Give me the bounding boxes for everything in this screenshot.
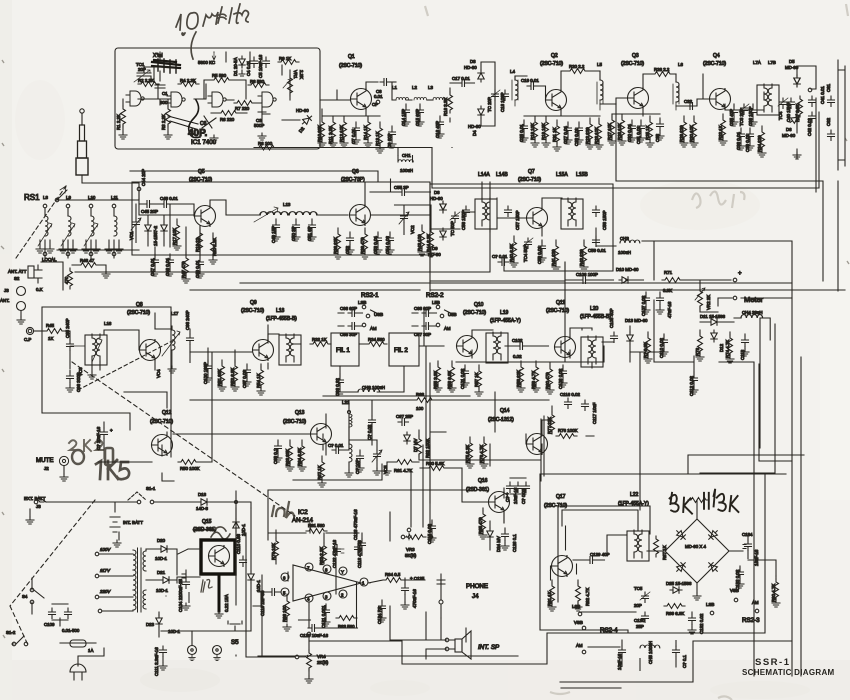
NAND gate 4	[258, 92, 276, 107]
svg-text:5K(B): 5K(B)	[405, 553, 417, 558]
capacitor C110	[65, 608, 72, 619]
capacitor C93b 0.22	[336, 374, 344, 396]
diode D20 10D-1	[158, 546, 170, 552]
svg-text:R10 22K: R10 22K	[317, 125, 322, 142]
svg-text:AM: AM	[752, 600, 759, 605]
svg-text:R80 5.6K: R80 5.6K	[426, 461, 444, 466]
svg-text:25P: 25P	[636, 624, 644, 629]
svg-text:C67 30P: C67 30P	[414, 332, 431, 337]
resistor R38 22K	[334, 228, 342, 259]
AGC bus wires	[456, 346, 664, 362]
filter FIL1	[331, 333, 359, 366]
svg-text:S2: S2	[14, 276, 20, 281]
svg-text:(2SC-710): (2SC-710)	[127, 310, 150, 316]
svg-text:20P: 20P	[138, 67, 146, 72]
svg-text:LSB: LSB	[572, 604, 580, 609]
svg-text:47uF-16: 47uF-16	[667, 301, 672, 318]
handwritten Ile marks	[201, 580, 212, 593]
svg-text:D9: D9	[432, 246, 438, 251]
svg-text:C121 0.001: C121 0.001	[321, 605, 326, 628]
diode D4 HD-60	[478, 106, 484, 118]
resistor R32b 1K	[310, 342, 331, 347]
svg-text:C61: C61	[826, 83, 831, 92]
choke CH1 100uH	[397, 148, 399, 156]
NAND gate 2	[167, 92, 185, 107]
svg-text:Q12: Q12	[162, 410, 172, 416]
resistor R78 100K	[556, 434, 577, 439]
svg-text:15-1587-2: 15-1587-2	[153, 225, 158, 246]
svg-text:R25 1K: R25 1K	[645, 125, 650, 140]
resistor R62b 100K	[417, 436, 422, 457]
svg-text:HD-60: HD-60	[430, 196, 443, 201]
svg-text:R38 22K: R38 22K	[333, 237, 338, 254]
resistor R8 560	[248, 83, 269, 88]
svg-text:C? 10P: C? 10P	[355, 459, 360, 474]
capacitor C106 100P	[579, 277, 590, 284]
svg-text:VC4: VC4	[156, 369, 161, 378]
capacitor C57 150P	[505, 206, 512, 217]
svg-text:S5: S5	[231, 639, 239, 646]
diode D2a 15-1587-2	[145, 222, 151, 234]
bias bus row2	[132, 182, 565, 281]
svg-text:C19 0.01: C19 0.01	[521, 78, 539, 83]
resistor R41 220	[552, 240, 560, 271]
svg-text:C55 3P: C55 3P	[394, 185, 409, 190]
svg-text:R23 10K: R23 10K	[594, 127, 599, 144]
capacitor C15 60P	[416, 104, 424, 126]
svg-text:10D-1: 10D-1	[256, 579, 261, 592]
svg-text:D24 MV: D24 MV	[496, 536, 501, 552]
svg-text:R19 10K: R19 10K	[541, 123, 546, 140]
svg-text:1A: 1A	[88, 648, 93, 653]
resistor R79 10K	[274, 538, 279, 559]
variable cap VC5	[374, 450, 381, 461]
potentiometer VR4 2K(B)	[307, 650, 312, 671]
svg-text:Q6: Q6	[352, 169, 359, 175]
resistor R87	[654, 536, 659, 557]
resistor R7 220	[234, 101, 255, 106]
svg-text:R67 1K: R67 1K	[317, 465, 322, 480]
resistor R19 10K	[542, 116, 550, 147]
capacitor C108b 47uF-16	[656, 292, 664, 314]
oscillator box outline	[115, 48, 320, 149]
svg-text:C93 0.1: C93 0.1	[273, 448, 278, 464]
wire gate3 to gate4	[226, 99, 234, 101]
svg-text:C? 0.02: C? 0.02	[521, 488, 526, 504]
resistor R92 4.7K	[574, 580, 582, 611]
under Q3 cluster: resistor R27 10K	[608, 114, 616, 145]
svg-text:C18 100P: C18 100P	[500, 92, 505, 112]
capacitor C 20uF-16	[101, 428, 108, 439]
svg-text:220V: 220V	[99, 589, 111, 594]
svg-text:SCHEMATIC DIAGRAM: SCHEMATIC DIAGRAM	[742, 668, 835, 677]
capacitor C26 0.01	[575, 122, 583, 144]
svg-text:R34 560: R34 560	[368, 337, 385, 342]
svg-text:C100 100P: C100 100P	[203, 362, 208, 384]
wire mixer box	[430, 184, 613, 271]
svg-text:FIL 1: FIL 1	[336, 347, 350, 354]
dashed linkage diagonal	[72, 362, 295, 516]
capacitor C30 0.04	[628, 120, 636, 142]
svg-text:L1: L1	[392, 85, 397, 90]
svg-text:R7 220: R7 220	[235, 106, 250, 111]
choke CH3 100uH	[596, 228, 616, 246]
svg-text:LSB: LSB	[706, 602, 714, 607]
svg-text:R60 470: R60 470	[545, 372, 550, 389]
capacitor C27 0.04	[564, 122, 572, 144]
svg-text:(1FP-455A-Y): (1FP-455A-Y)	[490, 318, 521, 324]
svg-text:C50 3P: C50 3P	[291, 226, 296, 241]
capacitor C96b 10P	[356, 450, 364, 472]
svg-text:D3: D3	[470, 59, 476, 64]
svg-text:C? 0.02: C? 0.02	[367, 424, 372, 440]
svg-text:C5 10uF-16: C5 10uF-16	[258, 54, 263, 78]
resistor R20 2.2K	[209, 233, 217, 264]
capacitor C31 0.01	[637, 120, 645, 142]
svg-text:C39 0.01: C39 0.01	[745, 134, 750, 152]
svg-text:R79 10K: R79 10K	[271, 543, 276, 560]
svg-text:CH1: CH1	[402, 153, 411, 158]
svg-text:0.02: 0.02	[513, 354, 522, 359]
svg-text:L13: L13	[283, 202, 291, 207]
resistor R73 2.2K	[696, 330, 704, 361]
svg-text:D18: D18	[198, 492, 207, 497]
svg-text:C36 100P: C36 100P	[748, 106, 753, 126]
svg-text:L2: L2	[412, 85, 417, 90]
resistor R91 1K	[548, 580, 556, 611]
svg-text:C111 3.3uF-16: C111 3.3uF-16	[154, 647, 159, 676]
resistor R13 1K	[376, 122, 384, 153]
svg-text:R8 560: R8 560	[250, 79, 265, 84]
wire antenna to C44	[82, 175, 139, 189]
svg-text:R43 100: R43 100	[417, 234, 422, 251]
handwritten 2K2	[69, 440, 105, 451]
svg-text:R22 220: R22 220	[585, 127, 590, 144]
resistor R89 6.8K	[664, 604, 685, 609]
svg-text:C123 470uF-16: C123 470uF-16	[353, 509, 358, 540]
svg-text:C118 47uF-16: C118 47uF-16	[357, 540, 362, 568]
svg-text:L15B: L15B	[576, 172, 588, 178]
capacitor C95 200P	[67, 340, 74, 351]
svg-text:R42 220: R42 220	[579, 249, 584, 266]
svg-text:Q13: Q13	[295, 410, 305, 416]
ground symbols in box	[239, 70, 245, 76]
svg-text:S1-2: S1-2	[6, 630, 16, 635]
svg-text:C109: C109	[44, 622, 55, 627]
svg-text:R2 2.2K: R2 2.2K	[138, 78, 154, 83]
svg-text:TC4: TC4	[778, 111, 783, 120]
wire row2 upper rail	[130, 171, 378, 182]
svg-text:L7B: L7B	[768, 60, 776, 65]
capacitor C115 0.02	[428, 520, 436, 542]
resistor R44 3.3K	[427, 226, 435, 257]
svg-text:R55 3.3K: R55 3.3K	[433, 371, 438, 389]
svg-text:R6 220: R6 220	[220, 117, 235, 122]
capacitor C50 3P	[292, 219, 300, 241]
trimmer TC3 20P	[741, 104, 748, 115]
capacitor C4 0.01	[251, 57, 258, 68]
under Q2 cluster: capacitor C25 0.01	[520, 120, 528, 142]
resistor R83 560	[336, 616, 357, 621]
svg-text:L6: L6	[678, 62, 683, 67]
svg-text:10uF-16: 10uF-16	[617, 653, 622, 670]
capacitor C96 300P	[66, 370, 74, 392]
svg-text:C113: C113	[740, 349, 745, 360]
handwritten 1K5	[96, 460, 129, 479]
capacitor C104 2200uF-25	[183, 578, 190, 589]
capacitor C125 470uF-16	[402, 584, 409, 595]
resistor R3 2.2K	[164, 106, 172, 139]
svg-text:HD-60: HD-60	[464, 65, 477, 70]
svg-text:R11 2.2K: R11 2.2K	[328, 126, 333, 144]
capacitor C116 0.02	[565, 398, 572, 409]
svg-text:R89 6.8K: R89 6.8K	[666, 611, 684, 616]
capacitor C46 0.04	[166, 254, 174, 276]
svg-text:0.22 15A: 0.22 15A	[224, 594, 229, 612]
svg-text:C48 0.01: C48 0.01	[160, 196, 178, 201]
svg-text:ANT. ATT: ANT. ATT	[8, 269, 27, 274]
svg-text:C16 40P: C16 40P	[435, 121, 440, 138]
svg-text:500P: 500P	[254, 123, 264, 128]
svg-text:R20 2.2K: R20 2.2K	[212, 238, 217, 256]
bridge rectifier MD-60 X 4	[665, 519, 729, 583]
wire osc to Q1 base	[320, 90, 350, 100]
svg-text:C126 0.1: C126 0.1	[512, 534, 517, 552]
svg-text:R78 100K: R78 100K	[558, 428, 578, 433]
svg-text:C32: C32	[684, 99, 693, 104]
crystal X'tal (heavy scribble)	[152, 59, 180, 73]
capacitor C8 0.01 at collector	[366, 82, 378, 89]
svg-text:C132 0.02: C132 0.02	[699, 613, 704, 634]
transformer T1	[138, 548, 142, 612]
bus y181	[616, 104, 823, 281]
tap common	[98, 609, 102, 613]
wire battery line	[46, 502, 251, 508]
svg-text:R41 220: R41 220	[551, 249, 556, 266]
capacitor C53 0.04	[374, 232, 382, 254]
capacitor C?? 0.02	[660, 334, 668, 356]
resistor R84 0.5	[383, 578, 404, 583]
dashed linkage line	[78, 341, 172, 390]
resistor R1 2.2K	[119, 106, 127, 139]
capacitor C130 25P	[642, 612, 649, 623]
svg-text:C15 60P: C15 60P	[415, 109, 420, 126]
resistor R30 10K	[690, 116, 698, 147]
thick resistor (marker)	[72, 448, 113, 465]
resistor R63 33K	[286, 440, 294, 471]
wires right edge top	[797, 66, 816, 192]
svg-text:2K(B): 2K(B)	[317, 660, 329, 665]
box around Q17 L22 oscillator	[558, 506, 650, 602]
svg-text:L18: L18	[276, 308, 285, 314]
svg-text:VC2: VC2	[410, 225, 415, 234]
capacitor C134 16uF-16	[745, 540, 752, 551]
capacitor C101 0.02	[461, 365, 469, 387]
svg-text:R40 6.8K: R40 6.8K	[509, 244, 514, 262]
AC plug	[70, 648, 104, 680]
resistor R21 1K	[553, 120, 561, 151]
svg-text:(2SC-73P): (2SC-73P)	[341, 177, 365, 183]
svg-text:LSB: LSB	[358, 300, 366, 305]
svg-text:Q2: Q2	[551, 53, 558, 59]
svg-text:C31 0.01: C31 0.01	[636, 126, 641, 144]
svg-text:D4: D4	[472, 130, 477, 136]
svg-text:C124 R2: C124 R2	[377, 606, 382, 624]
capacitor C94 0.02	[369, 416, 376, 427]
svg-text:C68 60P: C68 60P	[414, 306, 431, 311]
svg-text:R47 470: R47 470	[181, 261, 186, 278]
svg-text:CP: CP	[372, 102, 378, 107]
svg-text:D5: D5	[789, 59, 795, 64]
svg-text:C? 0.1: C? 0.1	[682, 655, 687, 668]
svg-text:(2SC-1312): (2SC-1312)	[488, 417, 514, 423]
svg-text:1K: 1K	[48, 336, 53, 341]
choke CH4 29uH	[741, 315, 763, 318]
svg-text:R51 33K: R51 33K	[217, 369, 222, 386]
svg-text:R77 22K: R77 22K	[547, 417, 552, 434]
svg-text:R84 0.5: R84 0.5	[385, 572, 401, 577]
wire Q5 emitter to cluster	[155, 205, 200, 256]
svg-text:TC 50P: TC 50P	[450, 221, 455, 236]
svg-text:C41 0.01: C41 0.01	[820, 86, 825, 104]
wire gate1 to gate2	[144, 84, 206, 99]
svg-text:10D-1: 10D-1	[156, 588, 169, 593]
wire to Q2 base	[538, 86, 551, 100]
svg-text:VR3: VR3	[406, 547, 415, 552]
svg-text:VR2 2K: VR2 2K	[706, 295, 711, 310]
svg-text:Q7: Q7	[528, 169, 535, 175]
capacitor C100 100P	[204, 360, 212, 382]
diode D9 HD-60	[440, 228, 446, 240]
TC1 trimmer	[137, 67, 172, 82]
svg-text:R54 1K: R54 1K	[256, 373, 261, 388]
svg-text:J2: J2	[44, 466, 49, 471]
trimmer TC5a 50P	[452, 212, 459, 223]
svg-text:(2SC-710): (2SC-710)	[546, 308, 569, 314]
svg-text:C35 40P: C35 40P	[729, 109, 734, 126]
capacitor C98 240P	[187, 334, 194, 345]
svg-text:R34 220: R34 220	[757, 135, 762, 152]
capacitor C2 (feedback scribble)	[168, 100, 200, 138]
diode D25 15-1588	[670, 587, 682, 593]
capacitor C1	[155, 71, 165, 105]
svg-text:Q15: Q15	[202, 519, 212, 525]
svg-text:R92 4.7K: R92 4.7K	[585, 588, 590, 606]
switch arm on bus	[57, 190, 67, 200]
NAND gate 1	[126, 91, 144, 106]
resistor R81 560	[306, 529, 327, 534]
svg-text:L10: L10	[88, 195, 96, 200]
inductor L23	[349, 444, 352, 462]
capacitor C49 15P	[272, 219, 280, 241]
op-amp U IC2	[293, 565, 361, 601]
resistor R90 4.7K	[772, 576, 780, 607]
svg-text:470uF-16: 470uF-16	[412, 589, 417, 608]
svg-text:TC3 20P: TC3 20P	[739, 109, 744, 126]
node CP	[376, 100, 380, 104]
svg-text:D1 20-5A: D1 20-5A	[233, 57, 238, 76]
resistor R58 22K	[517, 361, 525, 392]
capacitor C7 0.01	[352, 122, 360, 144]
main antenna bus	[57, 190, 139, 250]
svg-text:C59 0.01: C59 0.01	[588, 248, 606, 253]
svg-text:16uF-16: 16uF-16	[754, 549, 759, 566]
svg-text:R81 560: R81 560	[308, 523, 325, 528]
svg-text:C25 0.01: C25 0.01	[519, 124, 524, 142]
resistor R6 220	[218, 111, 239, 116]
potentiometer VR2 2K	[698, 288, 703, 309]
heavy emitter lead	[218, 575, 221, 611]
svg-text:L7A: L7A	[753, 60, 761, 65]
bridge diode c	[674, 560, 687, 573]
capacitor C111 3.3uF	[160, 646, 167, 657]
svg-text:C.P: C.P	[24, 337, 31, 342]
ground top right	[793, 152, 801, 159]
resistor R77 22K	[550, 412, 555, 433]
svg-text:R56 6.8K: R56 6.8K	[447, 371, 452, 389]
wire to mixer diodes	[75, 182, 490, 272]
resistor R12 10K	[340, 116, 348, 147]
capacitor C61 0.01	[828, 96, 835, 107]
wire bottom buses	[258, 455, 804, 688]
resistor R51 33K	[218, 360, 226, 391]
svg-text:R5 560: R5 560	[212, 73, 227, 78]
svg-text:R19 22: R19 22	[195, 237, 200, 252]
svg-text:40P.: 40P.	[188, 128, 208, 139]
resistor R34b 560	[366, 342, 387, 347]
resistor R76 4.7K	[480, 437, 488, 468]
capacitor C118 47uF-16	[359, 539, 366, 550]
capacitor C107 0.02	[642, 292, 650, 314]
capacitor C44 20P	[137, 187, 141, 191]
svg-text:0.01-500: 0.01-500	[62, 628, 80, 633]
svg-text:C110 0.02: C110 0.02	[659, 338, 664, 358]
resistor R29 220	[680, 116, 688, 147]
svg-text:R9 1K: R9 1K	[279, 56, 291, 61]
svg-text:R32 1K: R32 1K	[312, 337, 327, 342]
svg-text:0.K: 0.K	[36, 287, 43, 292]
capacitor Cx 0.01	[498, 259, 509, 266]
svg-text:INT. SP: INT. SP	[478, 644, 500, 651]
capacitor C59 0.01	[593, 236, 600, 247]
long bus row3 bottom	[42, 181, 845, 457]
svg-text:HD-60: HD-60	[468, 124, 481, 129]
handwritten 10h	[272, 502, 294, 518]
capacitor C95b 0.01	[332, 447, 343, 454]
bridge diode b	[706, 528, 719, 541]
wire mid verticals	[430, 192, 760, 510]
capacitor C97 25P	[398, 419, 409, 426]
resistor R82 2.2K	[322, 543, 327, 564]
svg-text:R30 10K: R30 10K	[689, 125, 694, 142]
resistor R9 1K	[278, 60, 299, 65]
svg-text:L4: L4	[510, 69, 515, 74]
capacitor C62 0.01	[828, 130, 835, 141]
svg-text:R27 10K: R27 10K	[607, 123, 612, 140]
svg-text:Q1: Q1	[348, 54, 355, 60]
telescopic antenna	[80, 109, 84, 113]
diode D1 20-5A	[239, 56, 245, 68]
resistor R43 100	[418, 225, 426, 256]
svg-text:C62: C62	[826, 117, 831, 126]
svg-text:RS2-1: RS2-1	[361, 292, 379, 299]
switch RS2-1	[338, 292, 383, 337]
svg-text:R64 6.8K: R64 6.8K	[297, 448, 302, 466]
svg-text:(2SC-710): (2SC-710)	[621, 61, 644, 67]
wire right edge top cluster	[838, 60, 845, 170]
svg-text:+: +	[738, 270, 742, 277]
capacitor C55 3P	[398, 189, 409, 196]
